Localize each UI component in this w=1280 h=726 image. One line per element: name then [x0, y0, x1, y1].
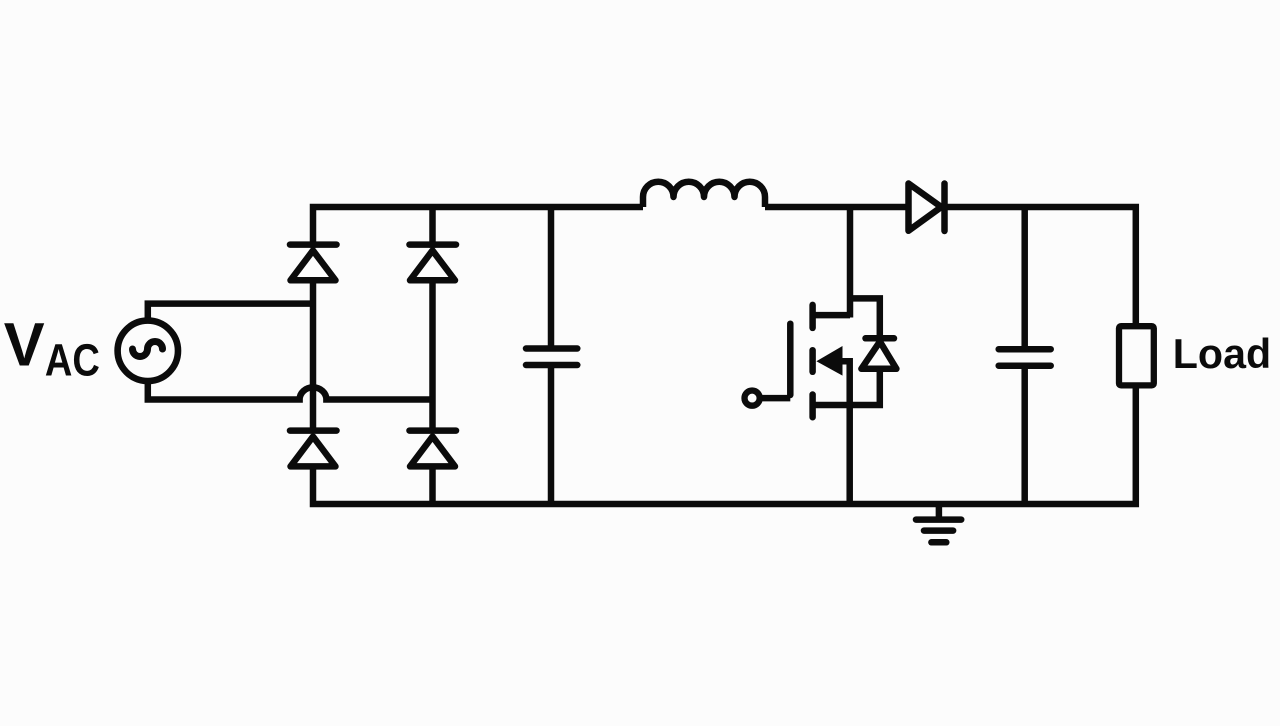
- svg-text:Load: Load: [1173, 330, 1271, 377]
- svg-text:AC: AC: [45, 335, 100, 386]
- svg-text:V: V: [4, 311, 45, 379]
